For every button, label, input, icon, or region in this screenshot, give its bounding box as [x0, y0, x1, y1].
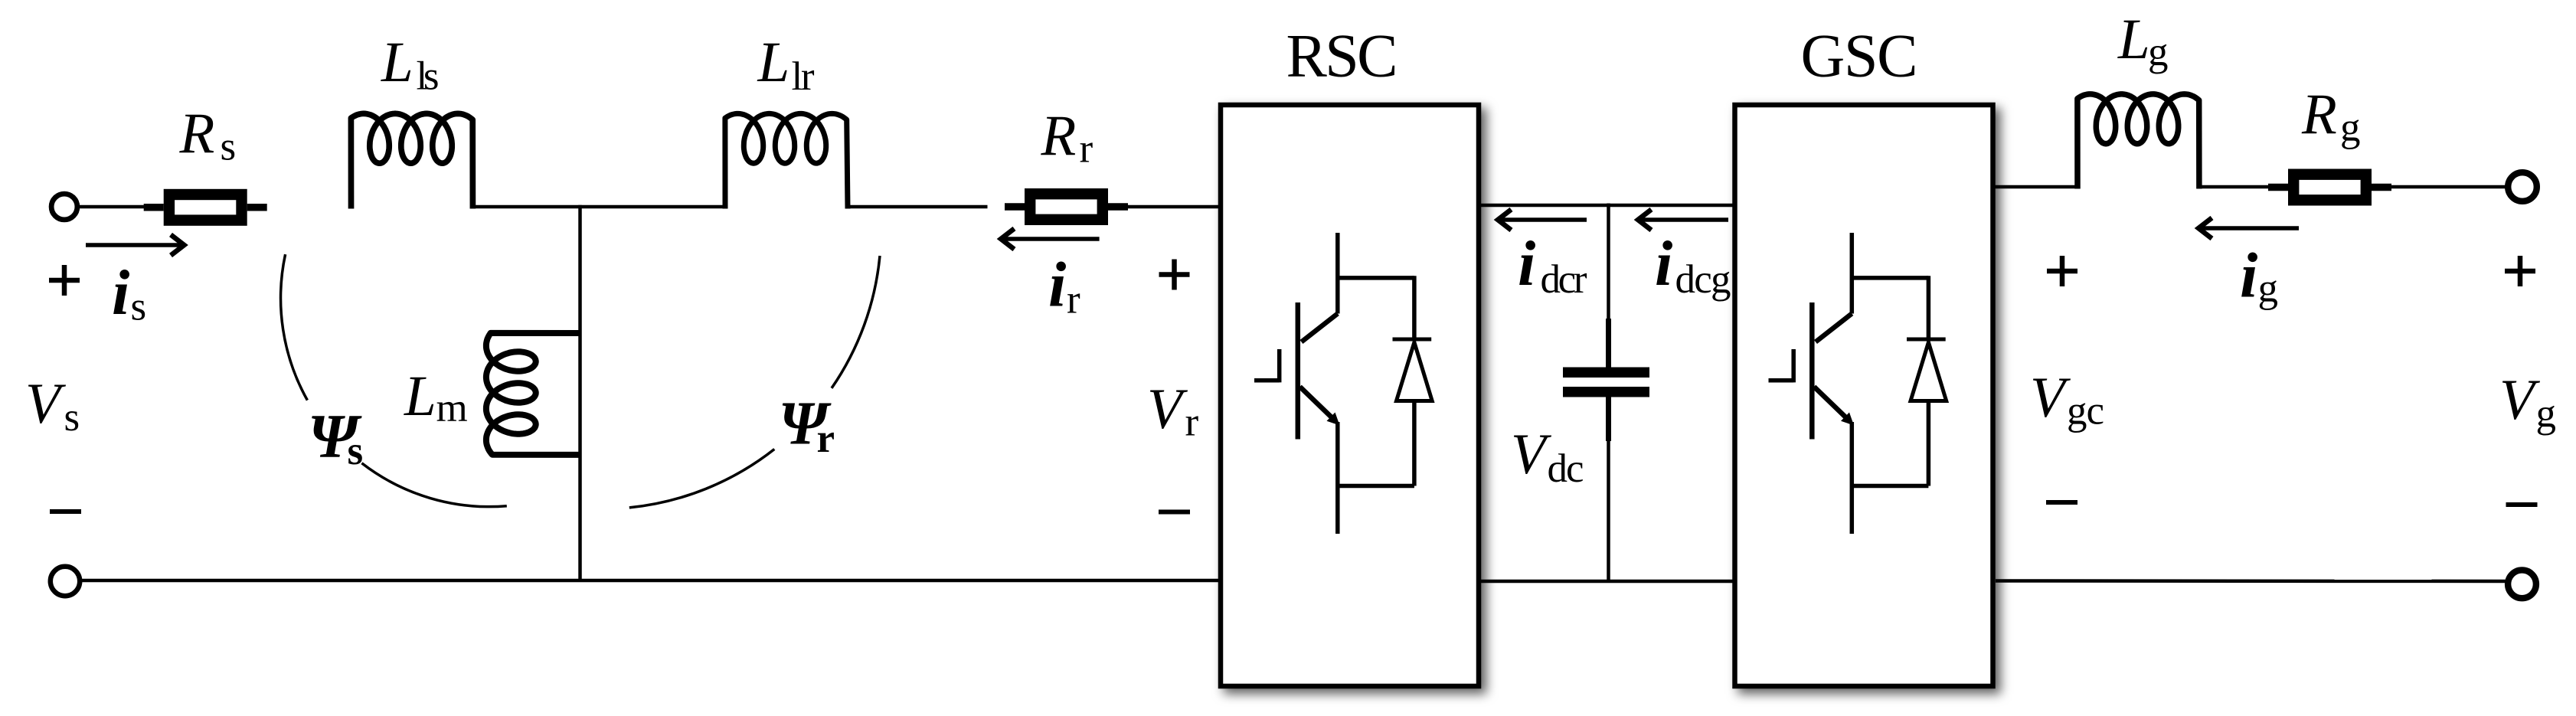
- svg-text:i: i: [2240, 240, 2257, 312]
- svg-text:i: i: [1655, 228, 1672, 299]
- svg-text:i: i: [1518, 228, 1535, 299]
- svg-text:g: g: [2340, 106, 2361, 150]
- svg-text:dc: dc: [1548, 446, 1584, 491]
- svg-text:r: r: [1067, 278, 1080, 322]
- svg-text:g: g: [2148, 30, 2169, 74]
- svg-text:GSC: GSC: [1801, 23, 1918, 90]
- svg-text:s: s: [221, 125, 237, 169]
- svg-text:L: L: [381, 31, 414, 94]
- svg-text:m: m: [436, 386, 468, 430]
- svg-text:dcr: dcr: [1541, 257, 1587, 302]
- svg-text:L: L: [404, 365, 436, 428]
- svg-text:s: s: [64, 395, 80, 440]
- svg-text:L: L: [757, 31, 790, 94]
- svg-text:r: r: [1080, 127, 1093, 172]
- svg-text:R: R: [2301, 83, 2337, 146]
- svg-text:r: r: [817, 417, 835, 461]
- svg-text:gc: gc: [2067, 389, 2104, 433]
- svg-text:R: R: [179, 102, 215, 165]
- svg-text:lr: lr: [792, 54, 815, 99]
- svg-text:g: g: [2258, 266, 2279, 311]
- svg-text:dcg: dcg: [1675, 257, 1731, 302]
- svg-text:RSC: RSC: [1286, 23, 1398, 90]
- svg-text:s: s: [348, 429, 364, 473]
- svg-text:ls: ls: [417, 54, 440, 99]
- svg-text:g: g: [2536, 391, 2557, 436]
- svg-text:r: r: [1185, 401, 1199, 445]
- svg-text:i: i: [1048, 250, 1066, 321]
- svg-text:L: L: [2117, 8, 2150, 71]
- svg-text:R: R: [1041, 104, 1077, 168]
- svg-text:i: i: [112, 257, 129, 329]
- svg-text:s: s: [131, 285, 147, 329]
